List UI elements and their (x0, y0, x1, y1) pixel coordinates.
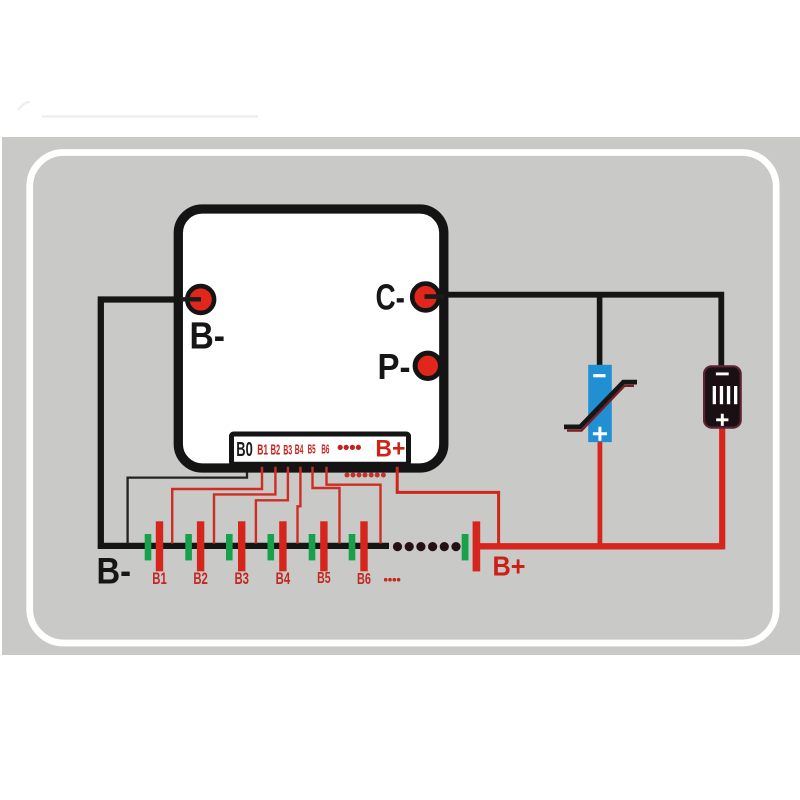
cell B6 negative (349, 534, 356, 560)
svg-text:B3: B3 (283, 441, 292, 457)
cell B4 positive (279, 521, 286, 571)
svg-text:B1: B1 (152, 570, 167, 588)
svg-text:C-: C- (376, 277, 406, 318)
load body (704, 366, 741, 427)
load plus mark (716, 414, 728, 426)
charger plug slash (564, 382, 637, 427)
svg-text:B-: B- (190, 316, 226, 358)
sense wire B4 (298, 458, 301, 544)
cell B2 negative (185, 534, 192, 560)
strip ellipsis dots (338, 445, 361, 450)
svg-text:B6: B6 (357, 571, 371, 588)
gray panel background (2, 137, 800, 655)
module U1 (BMS board) (178, 209, 444, 468)
white rounded frame (30, 153, 777, 644)
dots after B6 label (384, 578, 401, 582)
cell B5 negative (309, 534, 316, 560)
svg-text:B-: B- (97, 550, 132, 591)
charger body (588, 365, 612, 442)
cell B3 positive (238, 521, 245, 571)
wire C- terminal to top rail and load drop (426, 295, 722, 367)
charger plug slash shadow (567, 386, 634, 431)
series continuation dots (393, 542, 461, 551)
svg-text:B6: B6 (321, 442, 329, 457)
svg-text:B0: B0 (236, 438, 253, 461)
terminal C- stub (425, 294, 445, 299)
last cell negative (462, 534, 469, 560)
svg-text:B2: B2 (193, 570, 208, 588)
wire B+ from strip to bus (397, 455, 498, 544)
red bus to B+ (476, 543, 723, 549)
cell plates: cell B1 negative (145, 534, 152, 560)
sense wire B1 (172, 458, 262, 544)
svg-text:B1: B1 (257, 441, 268, 458)
connector strip J1 (232, 434, 409, 464)
svg-text:B+: B+ (493, 550, 526, 581)
cell B1 positive (156, 521, 163, 571)
last cell positive (473, 521, 481, 571)
wire B0 sense (128, 458, 247, 544)
faint artifact line top band (42, 115, 258, 117)
load red lead (719, 426, 725, 549)
sense wire B6 (327, 458, 381, 544)
terminal C- pad (412, 284, 439, 311)
svg-text:P-: P- (378, 346, 411, 387)
svg-text:B4: B4 (276, 570, 291, 588)
wire branch to charger (597, 295, 603, 366)
cell B3 negative (226, 534, 233, 560)
cell B6 positive (360, 521, 367, 571)
charger minus mark (593, 374, 605, 377)
cell B4 negative (268, 534, 275, 560)
charger plus mark (593, 427, 607, 441)
svg-text:B3: B3 (234, 570, 249, 588)
svg-text:B5: B5 (308, 441, 316, 456)
terminal P- pad (415, 353, 440, 378)
terminal B- pad (187, 286, 214, 313)
wire B- terminal to left rail and bottom bus (101, 300, 389, 546)
svg-text:B+: B+ (375, 436, 405, 463)
terminal B- stub (180, 297, 201, 301)
sense wire B3 (256, 458, 288, 544)
sense wire B2 (214, 458, 275, 544)
svg-text:B5: B5 (317, 570, 331, 587)
load minus mark (716, 372, 729, 375)
charger red lead (598, 441, 603, 546)
sense wire B5 (313, 458, 340, 544)
load grille bars (713, 386, 738, 404)
svg-text:B2: B2 (271, 442, 281, 458)
cell B5 positive (320, 521, 327, 571)
svg-text:B4: B4 (295, 442, 304, 457)
ellipsis dots below strip (345, 473, 386, 478)
cell B2 positive (197, 521, 204, 571)
